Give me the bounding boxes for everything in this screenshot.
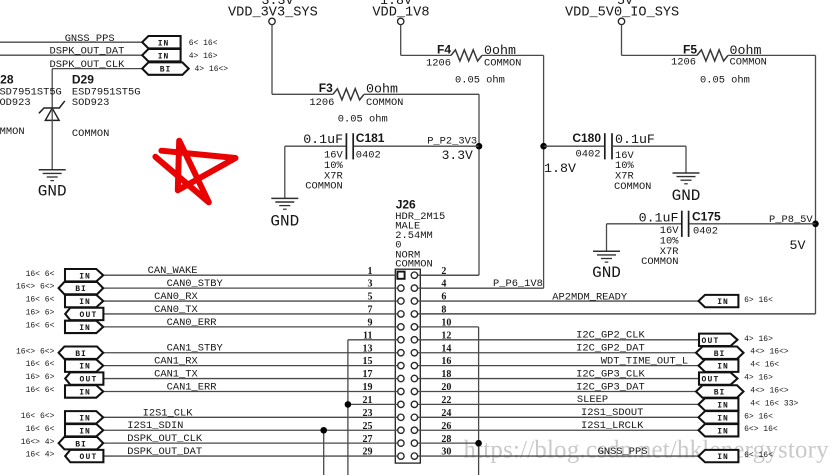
wire VDD_5V0_IO_SYS to F5 — [622, 25, 698, 56]
annotation 16< 6< (CAN0_RX) — [26, 296, 55, 305]
svg-text:IN: IN — [717, 427, 729, 436]
annotation 4> 16<> (DSPK_OUT_CLK) — [195, 65, 229, 74]
svg-text:I2C_GP3_DAT: I2C_GP3_DAT — [576, 381, 645, 393]
svg-text:I2C_GP2_DAT: I2C_GP2_DAT — [576, 343, 645, 355]
svg-text:COMMON: COMMON — [484, 57, 521, 69]
svg-text:6> 16<: 6> 16< — [744, 412, 773, 421]
wire C181 left to GND riser — [285, 146, 346, 198]
annotation 6> 16< (AP2MDM_READY) — [744, 296, 773, 305]
net label I2C_GP3_DAT — [576, 381, 645, 393]
svg-text:IN: IN — [717, 363, 729, 372]
svg-text:BI: BI — [160, 66, 172, 75]
wire net CAN1_STBY (pin 13) — [103, 352, 397, 354]
svg-text:IN: IN — [79, 272, 91, 281]
net label WDT_TIME_OUT_L — [601, 355, 688, 367]
svg-text:16<> 6<>: 16<> 6<> — [16, 347, 55, 356]
annotation (I2C_GP2_DAT) — [750, 348, 789, 357]
svg-text:4> 16>: 4> 16> — [744, 335, 773, 344]
wire net I2S1_SDIN (pin 25) — [103, 429, 397, 431]
annotation 16< 6< (CAN_WAKE) — [26, 270, 55, 279]
port tag IN I2S1_LRCLK — [699, 424, 739, 436]
wire net CAN0_RX (pin 5) — [103, 300, 397, 302]
port tag IN CAN_WAKE — [65, 269, 103, 281]
wire pin10 down to pin28 and bottom — [418, 327, 479, 475]
annotation 16< 6< (CAN1_RX) — [26, 360, 55, 369]
port tag IN WDT_TIME_OUT_L — [699, 359, 739, 371]
port tag IN SLEEP — [699, 398, 739, 410]
port tag IN I2S1_CLK — [65, 411, 103, 423]
wire pin11 to bottom — [348, 340, 398, 475]
svg-text:F5: F5 — [683, 43, 697, 57]
svg-text:4> 16<>: 4> 16<> — [195, 65, 229, 74]
svg-text:F3: F3 — [319, 81, 333, 95]
power symbol VDD_5V0_IO_SYS — [565, 0, 679, 25]
pin numbers 1-30 — [363, 266, 452, 458]
svg-text:16<> 4>: 16<> 4> — [21, 438, 55, 447]
junction dot pin25 net — [320, 427, 327, 434]
svg-text:C175: C175 — [692, 210, 721, 224]
svg-text:1206: 1206 — [309, 97, 334, 109]
svg-text:GND: GND — [38, 183, 67, 201]
wire F4 to 1V8 node — [420, 55, 543, 288]
diode D28 labels (cut off) — [0, 72, 62, 138]
svg-text:3.3V: 3.3V — [442, 148, 473, 163]
wire net DSPK_OUT_CLK (pin 27) — [103, 442, 397, 444]
svg-text:SLEEP: SLEEP — [577, 394, 608, 406]
net label DSPK_OUT_CLK — [50, 59, 126, 71]
net label CAN1_TX — [154, 369, 198, 381]
port tag BI I2C_GP2_DAT — [696, 347, 744, 359]
net label CAN1_STBY — [167, 343, 224, 355]
svg-text:WDT_TIME_OUT_L: WDT_TIME_OUT_L — [601, 355, 688, 367]
red hand-drawn star annotation — [155, 141, 235, 203]
svg-text:OUT: OUT — [79, 453, 97, 462]
svg-text:0.1uF: 0.1uF — [615, 132, 655, 147]
svg-text:C180: C180 — [572, 131, 601, 145]
net label GNSS_PPS — [598, 446, 648, 458]
svg-text:COMMON: COMMON — [641, 256, 678, 268]
port tag BI DSPK_OUT_CLK — [59, 437, 104, 449]
svg-text:CAN0_TX: CAN0_TX — [154, 304, 198, 316]
wire C180 left to 1V8 net — [544, 145, 604, 147]
svg-text:COMMON: COMMON — [72, 128, 109, 140]
annotation 16<> 4> (DSPK_OUT_CLK) — [21, 438, 55, 447]
svg-text:16< 6<: 16< 6< — [26, 386, 55, 395]
wire net I2C_GP3_DAT (pin 20) — [418, 390, 698, 392]
wire pin2 to 3V3 — [418, 274, 479, 276]
svg-text:J26: J26 — [396, 197, 416, 211]
wire pin6 AP2MDM_READY — [418, 300, 700, 302]
annotation (I2C_GP3_DAT) — [750, 386, 789, 395]
svg-text:OUT: OUT — [701, 376, 719, 385]
annotation 16< 4> (DSPK_OUT_DAT) — [26, 451, 55, 460]
svg-text:COMMON: COMMON — [305, 181, 342, 193]
svg-text:CAN1_STBY: CAN1_STBY — [167, 343, 224, 355]
net label CAN1_RX — [154, 356, 198, 368]
annotation 16<> 6<> (CAN0_STBY) — [16, 283, 55, 292]
wire net I2S1_SDOUT (pin 24) — [418, 416, 700, 418]
port tag BI CAN1_STBY — [59, 347, 104, 359]
wire net DSPK_OUT_DAT (top-left) — [0, 54, 142, 56]
junction dot 3V3/C181 — [476, 143, 483, 150]
label GND (D29) — [38, 183, 67, 201]
svg-text:OUT: OUT — [701, 337, 719, 346]
svg-text:IN: IN — [717, 414, 729, 423]
port tag OUT CAN1_TX — [65, 372, 103, 384]
port tag IN CAN0_ERR — [65, 321, 103, 333]
net label I2C_GP3_CLK — [576, 368, 645, 380]
svg-text:DSPK_OUT_DAT: DSPK_OUT_DAT — [50, 46, 125, 58]
net label CAN0_TX — [154, 304, 198, 316]
svg-text:1.8V: 1.8V — [544, 161, 576, 176]
svg-text:BI: BI — [75, 440, 87, 449]
wire net I2S1_CLK (pin 23) — [103, 416, 397, 418]
svg-text:16< 6<: 16< 6< — [26, 296, 55, 305]
svg-text:0.05 ohm: 0.05 ohm — [338, 114, 388, 126]
annotation (GNSS_PPS) — [744, 451, 773, 460]
svg-text:0.1uF: 0.1uF — [303, 132, 343, 147]
svg-text:DSPK_OUT_DAT: DSPK_OUT_DAT — [127, 446, 202, 458]
svg-text:F4: F4 — [437, 43, 451, 57]
svg-text:5V: 5V — [790, 238, 806, 253]
svg-text:D29: D29 — [72, 72, 94, 86]
annotation (I2S1_SDOUT) — [744, 412, 773, 421]
svg-text:BI: BI — [75, 285, 87, 294]
svg-text:GND: GND — [672, 187, 701, 205]
svg-text:16> 6>: 16> 6> — [26, 373, 55, 382]
wire pin4 to 1V8 — [418, 287, 544, 289]
svg-text:1206: 1206 — [671, 57, 696, 69]
svg-text:DSPK_OUT_CLK: DSPK_OUT_CLK — [127, 433, 203, 445]
annotation 4> 16> (DSPK_OUT_DAT) — [189, 52, 218, 61]
svg-text:6< 16<: 6< 16< — [189, 39, 218, 48]
ground symbol GND (C181) — [271, 198, 298, 209]
wire pin8 to 5V — [418, 313, 816, 315]
port tag BI I2C_GP3_DAT — [696, 385, 744, 397]
capacitor C180 0.1uF — [572, 131, 655, 193]
wire F5 to 5V node — [420, 55, 815, 314]
power symbol VDD_3V3_SYS — [228, 0, 318, 25]
svg-text:0402: 0402 — [693, 226, 718, 238]
svg-text:CAN0_ERR: CAN0_ERR — [167, 317, 217, 329]
annotation 16<> 6<> (CAN1_STBY) — [16, 347, 55, 356]
wire C181 right to 3V3 net — [354, 145, 479, 147]
net label I2C_GP2_DAT — [576, 343, 645, 355]
svg-text:IN: IN — [717, 298, 729, 307]
annotation 6< 16< (GNSS_PPS) — [189, 39, 218, 48]
wire net WDT_TIME_OUT_L (pin 16) — [418, 365, 700, 367]
svg-text:4<> 16<>: 4<> 16<> — [750, 348, 789, 357]
port tag OUT I2C_GP3_CLK — [699, 372, 738, 384]
svg-text:GND: GND — [592, 264, 621, 282]
net label AP2MDM_READY — [552, 292, 628, 304]
wire pin25 net down to bottom — [323, 430, 325, 475]
wire net I2C_GP2_DAT (pin 14) — [418, 352, 698, 354]
label 3.3V — [442, 148, 473, 163]
wire net I2C_GP2_CLK (pin 12) — [418, 339, 700, 341]
svg-text:OUT: OUT — [79, 311, 97, 320]
wire C180 right to GND riser — [613, 146, 686, 172]
wire net CAN0_STBY (pin 3) — [103, 287, 397, 289]
net label I2C_GP2_CLK — [576, 330, 645, 342]
junction dot pin21/pin11 net — [345, 401, 352, 408]
svg-text:4< 16< 33>: 4< 16< 33> — [750, 399, 798, 408]
annotation 16< 6< (I2S1_SDIN) — [26, 425, 55, 434]
net label I2S1_SDOUT — [581, 407, 643, 419]
wire net CAN1_ERR (pin 19) — [103, 390, 397, 392]
power symbol VDD_1V8 — [372, 0, 429, 25]
svg-text:I2C_GP3_CLK: I2C_GP3_CLK — [576, 368, 645, 380]
wire C175 left to GND riser — [607, 224, 682, 251]
svg-text:DSPK_OUT_CLK: DSPK_OUT_CLK — [50, 59, 126, 71]
wire pin28 stub — [418, 442, 479, 444]
label GND (C180) — [672, 187, 701, 205]
net label CAN1_ERR — [167, 381, 217, 393]
svg-text:6<> 16<: 6<> 16< — [744, 425, 778, 434]
wire net CAN0_TX (pin 7) — [103, 313, 397, 315]
wire net CAN1_RX (pin 15) — [103, 365, 397, 367]
port tag IN I2S1_SDIN — [65, 424, 103, 436]
port tag IN AP2MDM_READY — [699, 295, 739, 307]
svg-text:SOD923: SOD923 — [0, 97, 31, 109]
fuse F5 0ohm 1206 — [671, 43, 767, 87]
svg-text:I2S1_SDOUT: I2S1_SDOUT — [581, 407, 643, 419]
ground symbol GND (D29) — [39, 170, 66, 181]
svg-text:4<> 16<>: 4<> 16<> — [750, 386, 789, 395]
port tag OUT DSPK_OUT_DAT — [65, 450, 103, 462]
net label CAN0_ERR — [167, 317, 217, 329]
svg-text:COMMON: COMMON — [614, 181, 651, 193]
wire VDD_1V8 to F4 — [401, 25, 451, 56]
junction dot 1V8/C180 — [540, 143, 547, 150]
wire pin21 stub — [348, 403, 398, 405]
svg-text:BI: BI — [75, 350, 87, 359]
net label DSPK_OUT_CLK — [127, 433, 203, 445]
annotation (I2C_GP2_CLK) — [744, 335, 773, 344]
svg-text:CAN1_RX: CAN1_RX — [154, 356, 198, 368]
wire net CAN_WAKE (pin 1) — [103, 274, 397, 276]
svg-text:OUT: OUT — [79, 376, 97, 385]
net label CAN0_RX — [154, 291, 198, 303]
port tag BI CAN0_STBY — [59, 282, 104, 294]
svg-text:CAN0_RX: CAN0_RX — [154, 291, 198, 303]
svg-text:GND: GND — [270, 212, 299, 230]
wire D29 anode to GND — [51, 109, 53, 170]
svg-text:CAN1_TX: CAN1_TX — [154, 369, 198, 381]
ground symbol GND (C175) — [593, 251, 620, 262]
label 1.8V — [544, 161, 576, 176]
svg-text:I2S1_CLK: I2S1_CLK — [143, 407, 194, 419]
label 5V — [790, 238, 806, 253]
wire net GNSS_PPS (pin 30) — [418, 455, 700, 457]
port tag OUT CAN0_TX — [65, 308, 103, 320]
label GND (C181) — [270, 212, 299, 230]
svg-text:BI: BI — [714, 350, 726, 359]
svg-text:IN: IN — [717, 453, 729, 462]
svg-text:CAN0_STBY: CAN0_STBY — [167, 278, 224, 290]
svg-text:IN: IN — [717, 402, 729, 411]
svg-text:I2S1_SDIN: I2S1_SDIN — [127, 420, 183, 432]
fuse F3 0ohm 1206 — [309, 81, 403, 125]
connector J26 pins (1-30) — [397, 272, 417, 460]
net label CAN0_STBY — [167, 278, 224, 290]
annotation (I2C_GP3_CLK) — [744, 374, 773, 383]
port tag IN CAN1_RX — [65, 359, 103, 371]
label P_P6_1V8 — [493, 278, 543, 290]
net label SLEEP — [577, 394, 608, 406]
annotation (SLEEP) — [750, 399, 798, 408]
capacitor C181 0.1uF — [303, 131, 385, 193]
port tag OUT I2C_GP2_CLK — [699, 334, 738, 346]
wire net GNSS_PPS (top-left) — [0, 41, 142, 43]
svg-text:4> 16>: 4> 16> — [189, 52, 218, 61]
svg-text:GNSS_PPS: GNSS_PPS — [598, 446, 648, 458]
annotation 16> 6> (CAN1_TX) — [26, 373, 55, 382]
port tag BI DSPK_OUT_CLK — [142, 62, 189, 74]
annotation 16< 6<> (I2S1_CLK) — [21, 412, 55, 421]
port tag IN GNSS_PPS — [699, 450, 739, 462]
svg-text:COMMON: COMMON — [730, 57, 767, 69]
port tag IN DSPK_OUT_DAT — [142, 49, 180, 61]
label GND (C175) — [592, 264, 621, 282]
svg-text:16< 6<: 16< 6< — [26, 321, 55, 330]
annotation (WDT_TIME_OUT_L) — [750, 361, 779, 370]
annotation 16> 6> (CAN0_TX) — [26, 309, 55, 318]
port tag IN CAN1_ERR — [65, 385, 103, 397]
svg-text:16< 6<: 16< 6< — [26, 425, 55, 434]
fuse F4 0ohm 1206 — [426, 43, 521, 87]
label P_P8_5V — [769, 214, 813, 226]
port tag IN I2S1_SDOUT — [699, 411, 739, 423]
svg-text:16< 6<: 16< 6< — [26, 270, 55, 279]
watermark text — [464, 437, 830, 464]
net label DSPK_OUT_DAT — [127, 446, 202, 458]
svg-text:AP2MDM_READY: AP2MDM_READY — [552, 292, 628, 304]
wire net I2S1_LRCLK (pin 26) — [418, 429, 700, 431]
diode D29 labels — [72, 72, 141, 140]
svg-text:6< 16<: 6< 16< — [744, 451, 773, 460]
junction dot 5V/C175 — [812, 221, 819, 228]
svg-text:COMMON: COMMON — [0, 126, 25, 138]
net label GNSS_PPS — [65, 33, 115, 45]
svg-text:I2C_GP2_CLK: I2C_GP2_CLK — [576, 330, 645, 342]
svg-text:6> 16<: 6> 16< — [744, 296, 773, 305]
svg-text:CAN1_ERR: CAN1_ERR — [167, 381, 217, 393]
wire net I2C_GP3_CLK (pin 18) — [418, 378, 700, 380]
port tag IN CAN0_RX — [65, 295, 103, 307]
svg-text:SOD923: SOD923 — [72, 97, 109, 109]
svg-text:I2S1_LRCLK: I2S1_LRCLK — [581, 420, 644, 432]
wire C175 right to 5V net — [689, 223, 815, 225]
svg-text:COMMON: COMMON — [366, 97, 403, 109]
svg-text:16<> 6<>: 16<> 6<> — [16, 283, 55, 292]
net label I2S1_CLK — [143, 407, 194, 419]
net label DSPK_OUT_DAT — [50, 46, 125, 58]
svg-text:4> 16>: 4> 16> — [744, 374, 773, 383]
svg-text:IN: IN — [79, 427, 91, 436]
wire VDD_3V3_SYS to F3 — [272, 25, 333, 95]
svg-text:IN: IN — [158, 39, 170, 48]
svg-text:CAN_WAKE: CAN_WAKE — [148, 265, 198, 277]
wire net CAN0_ERR (pin 9) — [103, 326, 397, 328]
svg-text:C181: C181 — [356, 131, 385, 145]
svg-text:16< 6<>: 16< 6<> — [21, 412, 55, 421]
net label CAN_WAKE — [148, 265, 198, 277]
svg-text:0402: 0402 — [356, 150, 381, 162]
svg-text:IN: IN — [158, 52, 170, 61]
net label I2S1_SDIN — [127, 420, 183, 432]
svg-text:IN: IN — [79, 389, 91, 398]
capacitor C175 0.1uF — [639, 210, 721, 269]
svg-text:IN: IN — [79, 363, 91, 372]
svg-text:GNSS_PPS: GNSS_PPS — [65, 33, 115, 45]
svg-text:IN: IN — [79, 414, 91, 423]
wire net CAN1_TX (pin 17) — [103, 378, 397, 380]
wire net DSPK_OUT_DAT (pin 29) — [103, 455, 397, 457]
label P_P2_3V3 — [427, 136, 477, 148]
ground symbol GND (C180) — [673, 173, 700, 184]
svg-text:IN: IN — [79, 298, 91, 307]
wire net DSPK_OUT_CLK (top-left) — [52, 69, 142, 108]
annotation 16< 6< (CAN1_ERR) — [26, 386, 55, 395]
svg-text:16> 6>: 16> 6> — [26, 309, 55, 318]
svg-text:16< 6<: 16< 6< — [26, 360, 55, 369]
annotation 16< 6< (CAN0_ERR) — [26, 321, 55, 330]
svg-text:4< 16<: 4< 16< — [750, 361, 779, 370]
svg-text:0402: 0402 — [576, 148, 601, 160]
connector J26 body — [395, 269, 420, 463]
svg-text:IN: IN — [79, 324, 91, 333]
net label I2S1_LRCLK — [581, 420, 644, 432]
svg-text:1206: 1206 — [426, 57, 451, 69]
svg-text:0.05 ohm: 0.05 ohm — [700, 75, 750, 87]
svg-text:BI: BI — [714, 389, 726, 398]
svg-text:0.1uF: 0.1uF — [639, 211, 679, 226]
port tag IN GNSS_PPS — [142, 36, 180, 48]
wire net SLEEP (pin 22) — [418, 403, 700, 405]
connector J26 labels — [395, 197, 445, 270]
junction dot pin28/pin10 net — [475, 440, 482, 447]
svg-text:0.05 ohm: 0.05 ohm — [455, 74, 505, 86]
wire F3 to 3V3 node — [364, 94, 479, 275]
annotation (I2S1_LRCLK) — [744, 425, 778, 434]
svg-text:16< 4>: 16< 4> — [26, 451, 55, 460]
diode D29 symbol — [39, 101, 65, 121]
svg-text:D28: D28 — [0, 72, 14, 86]
